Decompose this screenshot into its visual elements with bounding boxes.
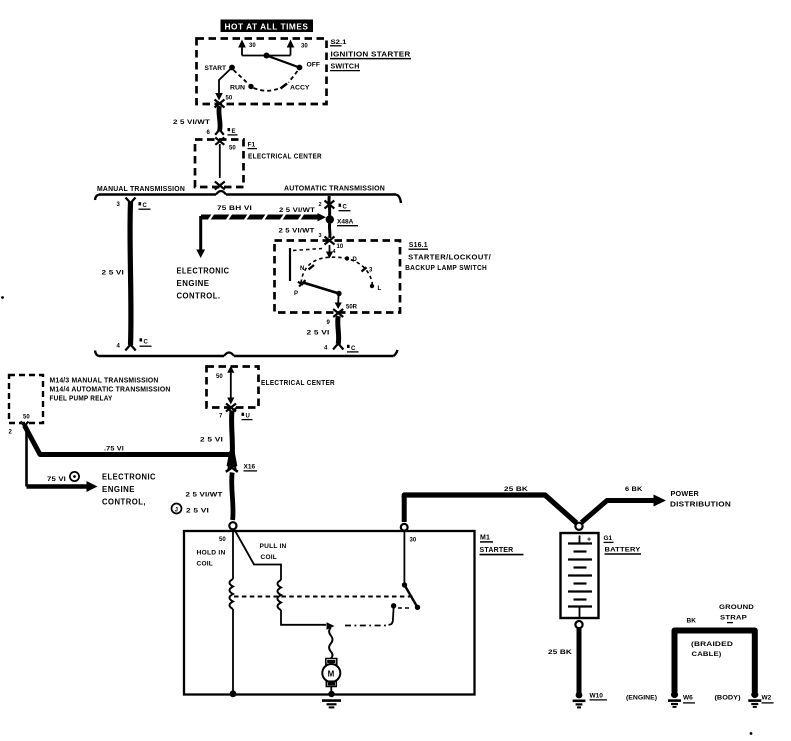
label electronic engine control (left) (177, 267, 230, 301)
svg-text:2 5 VI: 2 5 VI (200, 437, 223, 444)
svg-text:ENGINE: ENGINE (102, 485, 135, 494)
svg-text:2 5 VI/WT: 2 5 VI/WT (186, 492, 224, 499)
svg-text:50: 50 (216, 374, 223, 380)
contact arrow node (327, 622, 335, 629)
svg-text:2: 2 (319, 202, 322, 208)
svg-text:STARTER: STARTER (480, 547, 514, 554)
fixed contact to motor (345, 603, 411, 625)
svg-text:SWITCH: SWITCH (331, 64, 360, 71)
label pull-in coil (260, 543, 287, 561)
svg-text:2 5 VI/WT: 2 5 VI/WT (279, 228, 316, 235)
svg-text:S16.1: S16.1 (409, 242, 428, 249)
svg-text:G1: G1 (604, 535, 613, 542)
switch S16.1 box (275, 241, 401, 313)
svg-text:50: 50 (219, 537, 226, 543)
svg-text:(BRAIDED: (BRAIDED (691, 641, 733, 648)
svg-text:DISTRIBUTION: DISTRIBUTION (670, 502, 731, 509)
svg-text:C: C (351, 346, 356, 352)
bottom transmission rail (95, 350, 398, 356)
starter pin 50 terminal (229, 522, 236, 529)
contact D (345, 256, 358, 263)
solenoid linkage dashed (234, 596, 413, 598)
svg-text:50: 50 (23, 415, 30, 421)
ground under motor (322, 701, 341, 708)
svg-text:START: START (205, 65, 227, 72)
motor ground node (328, 691, 334, 697)
motor M (322, 659, 340, 694)
svg-text:RUN: RUN (230, 85, 245, 92)
dashed link bar to contact (293, 249, 322, 251)
svg-text:D: D (353, 257, 358, 263)
svg-text:3: 3 (319, 233, 322, 239)
automatic branch from rail (319, 196, 335, 216)
svg-text:IGNITION STARTER: IGNITION STARTER (331, 52, 411, 59)
fuse F1 electrical center box (195, 140, 244, 188)
label electronic engine control (middle) (102, 473, 156, 507)
svg-text:6 BK: 6 BK (625, 486, 643, 493)
motor brush lead (329, 628, 332, 659)
connector code C (139, 202, 151, 209)
relay M14 box (9, 375, 43, 423)
svg-text:50: 50 (229, 146, 236, 152)
svg-text:BACKUP LAMP SWITCH: BACKUP LAMP SWITCH (405, 263, 487, 272)
svg-text:MANUAL TRANSMISSION: MANUAL TRANSMISSION (97, 186, 185, 193)
contact P (294, 280, 306, 297)
wire into switch (329, 245, 331, 252)
splice X48A (326, 215, 358, 225)
ground W2 body (715, 691, 774, 707)
connector X at EC bottom (226, 404, 236, 412)
svg-text:C: C (143, 203, 148, 209)
circled J splice symbol (172, 504, 210, 515)
stray scan marks (1, 296, 4, 299)
svg-text:S2.1: S2.1 (331, 39, 347, 46)
wire 2.5 VI to rail (307, 316, 344, 350)
ground strap (675, 604, 755, 692)
connector X at F1 bottom (215, 182, 225, 190)
contact ACCY (281, 84, 311, 92)
svg-text:2 5 VI/WT: 2 5 VI/WT (279, 207, 316, 214)
terminal 30 right arrow (287, 40, 309, 56)
dashed rotor travel RUN-ACCY (254, 88, 281, 91)
svg-text:2 5 VI: 2 5 VI (307, 330, 330, 337)
label M14 relay (50, 378, 171, 403)
wire 6 BK to power distribution (582, 486, 732, 523)
wire 75 VI branch to engine control (27, 430, 98, 492)
svg-text:M14/3 MANUAL TRANSMISSION: M14/3 MANUAL TRANSMISSION (50, 378, 159, 385)
gear selector bar (289, 248, 291, 281)
svg-text:C: C (343, 205, 348, 211)
svg-text:ELECTRICAL CENTER: ELECTRICAL CENTER (248, 152, 322, 161)
wiper arm (303, 283, 342, 297)
wire X48A to S16.1 (328, 224, 332, 239)
svg-text:30: 30 (249, 43, 256, 49)
svg-text:M: M (328, 669, 335, 678)
connector code C (339, 204, 351, 211)
svg-text:W10: W10 (590, 693, 604, 700)
connector X at S16.1 bottom (333, 309, 343, 317)
svg-text:HOLD IN: HOLD IN (197, 550, 226, 557)
ground W6 engine (626, 691, 695, 707)
svg-text:U: U (246, 414, 250, 420)
contact 3 (362, 267, 374, 273)
svg-text:50R: 50R (346, 305, 358, 311)
svg-text:X48A: X48A (337, 219, 354, 226)
top transmission rail (95, 186, 401, 204)
hold-in coil (230, 529, 234, 693)
wire to pin 50R (335, 294, 358, 311)
wire 75 BH VI to engine control (196, 205, 326, 258)
svg-text:HOT AT ALL TIMES: HOT AT ALL TIMES (225, 22, 309, 31)
svg-text:COIL: COIL (197, 561, 214, 568)
svg-text:F1: F1 (248, 142, 256, 149)
dashed rotor travel OFF-ACCY (289, 71, 298, 83)
label S2.1 (330, 39, 411, 71)
svg-text:ELECTRONIC: ELECTRONIC (177, 267, 230, 276)
svg-text:(ENGINE): (ENGINE) (626, 695, 657, 702)
ground W10 (573, 692, 607, 708)
wire 25 BK starter to battery (404, 486, 576, 523)
svg-text:BK: BK (687, 618, 697, 625)
svg-text:J: J (175, 508, 178, 514)
node: rotor center (264, 53, 270, 59)
wire 2.5 VI/WT ignition to F1 (173, 106, 224, 135)
connector code E (228, 128, 238, 135)
svg-text:30: 30 (301, 44, 308, 50)
svg-text:25 BK: 25 BK (504, 486, 528, 493)
svg-text:ACCY: ACCY (290, 85, 310, 92)
svg-text:N: N (300, 266, 304, 272)
svg-text:X16: X16 (244, 464, 256, 471)
wire X16 to starter pin 50 (186, 473, 234, 521)
wire: START to terminal 50 (219, 68, 232, 95)
circled terminal symbol (70, 472, 79, 481)
wire: 30 bus (242, 55, 291, 57)
svg-text:2 5 VI/WT: 2 5 VI/WT (173, 119, 211, 126)
HOT AT ALL TIMES banner (221, 20, 314, 33)
connector code C (140, 338, 152, 346)
contact START (205, 65, 235, 72)
starter pin 30 terminal (401, 496, 408, 531)
contact L (370, 284, 382, 292)
terminal 30 left arrow (238, 40, 256, 56)
svg-text:ELECTRONIC: ELECTRONIC (102, 473, 156, 482)
connector code C (347, 345, 359, 352)
electrical center box 2 (207, 367, 259, 408)
junction node (230, 690, 237, 697)
contact RUN (230, 84, 254, 92)
wire 25 BK battery to ground (548, 629, 579, 693)
label G1 BATTERY (604, 535, 642, 554)
svg-text:25 BK: 25 BK (548, 649, 572, 656)
connector X at F1 top (215, 138, 224, 145)
wire into EC from rail (216, 366, 234, 380)
svg-text:2 5 VI: 2 5 VI (186, 508, 209, 515)
ignition switch S2.1 box (197, 39, 327, 105)
svg-text:AUTOMATIC TRANSMISSION: AUTOMATIC TRANSMISSION (284, 186, 385, 193)
svg-text:M1: M1 (480, 535, 490, 542)
dashed contact arc (301, 257, 372, 284)
svg-text:BATTERY: BATTERY (605, 547, 641, 554)
svg-text:C: C (144, 339, 149, 345)
pull-in coil (236, 532, 327, 625)
svg-text:30: 30 (410, 538, 417, 544)
label hold-in coil (197, 550, 226, 568)
svg-text:CONTROL.: CONTROL. (177, 292, 221, 301)
svg-text:COIL: COIL (261, 554, 278, 561)
connector X16 (226, 451, 257, 472)
main 2.5 VI wire EC2 to starter (200, 408, 237, 459)
dashed rotor travel START-RUN (234, 70, 250, 85)
label F1 (248, 142, 323, 161)
svg-text:W2: W2 (762, 695, 772, 702)
svg-text:(BODY): (BODY) (715, 695, 741, 702)
wire EC internal (230, 374, 232, 399)
wire: rotor to OFF (267, 56, 300, 68)
label S16.1 (405, 242, 492, 272)
wire .75 VI relay to splice (21, 422, 231, 455)
wire: F1 internal (219, 144, 221, 178)
svg-text:.75 VI: .75 VI (104, 446, 124, 453)
wire 2.5 VI manual branch (102, 198, 136, 351)
svg-text:P: P (294, 291, 298, 297)
svg-text:2 5 VI: 2 5 VI (102, 270, 125, 277)
svg-text:CABLE): CABLE) (692, 651, 722, 658)
svg-text:75 BH VI: 75 BH VI (217, 205, 252, 212)
svg-text:GROUND: GROUND (719, 604, 754, 611)
svg-text:L: L (378, 286, 382, 292)
svg-text:CONTROL,: CONTROL, (102, 498, 146, 507)
contact OFF (297, 62, 320, 71)
svg-text:POWER: POWER (671, 491, 700, 498)
connector X at switch pin 50 (215, 100, 225, 108)
svg-text:FUEL PUMP RELAY: FUEL PUMP RELAY (50, 396, 113, 403)
contact N (300, 265, 314, 272)
starter contact 30 (402, 531, 420, 610)
svg-text:ENGINE: ENGINE (177, 279, 210, 288)
starter M1 box (184, 531, 475, 695)
svg-text:50: 50 (226, 96, 233, 102)
svg-text:10: 10 (337, 244, 344, 250)
battery G1 (561, 523, 599, 629)
svg-text:M14/4 AUTOMATIC TRANSMISSION: M14/4 AUTOMATIC TRANSMISSION (50, 387, 171, 394)
svg-text:ELECTRICAL CENTER: ELECTRICAL CENTER (261, 378, 335, 387)
svg-text:STRAP: STRAP (720, 615, 747, 622)
label M1 STARTER (480, 535, 524, 555)
connector X at S16.1 pin 10 (325, 237, 335, 245)
svg-text:E: E (232, 129, 236, 135)
svg-text:OFF: OFF (307, 62, 321, 69)
svg-text:75 VI: 75 VI (47, 476, 66, 483)
svg-text:STARTER/LOCKOUT/: STARTER/LOCKOUT/ (408, 253, 492, 262)
svg-text:W6: W6 (683, 695, 693, 702)
svg-text:PULL IN: PULL IN (260, 543, 287, 550)
connector code U (242, 413, 253, 420)
